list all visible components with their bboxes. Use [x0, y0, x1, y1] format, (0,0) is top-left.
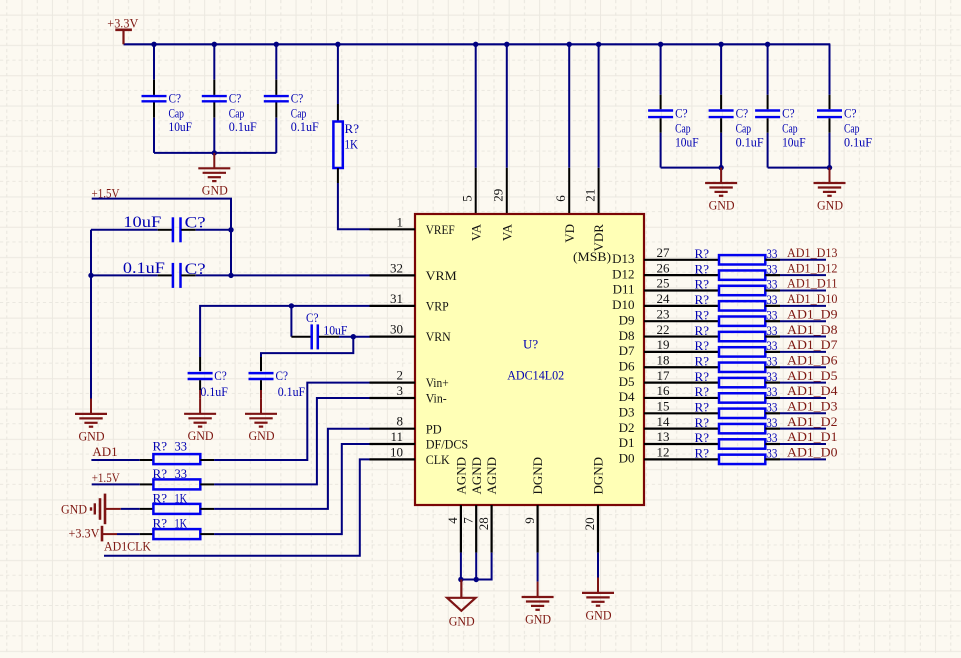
svg-text:C?: C?: [675, 106, 688, 121]
svg-text:C?: C?: [185, 215, 206, 232]
svg-text:2: 2: [397, 368, 404, 383]
svg-text:R?: R?: [695, 415, 710, 430]
svg-text:33: 33: [175, 439, 188, 454]
svg-text:24: 24: [657, 291, 671, 306]
svg-text:AD1_D11: AD1_D11: [787, 276, 838, 291]
svg-text:D3: D3: [619, 405, 635, 420]
svg-text:9: 9: [522, 517, 537, 524]
svg-text:31: 31: [390, 291, 403, 306]
svg-text:R?: R?: [153, 466, 168, 481]
svg-text:DGND: DGND: [530, 457, 545, 495]
svg-text:R?: R?: [695, 261, 710, 276]
svg-text:AD1_D1: AD1_D1: [787, 429, 838, 444]
svg-text:0.1uF: 0.1uF: [736, 135, 764, 150]
svg-text:0.1uF: 0.1uF: [123, 260, 165, 277]
svg-text:CLK: CLK: [426, 452, 451, 467]
svg-text:C?: C?: [229, 90, 242, 105]
svg-text:33: 33: [766, 246, 777, 261]
svg-text:VREF: VREF: [426, 222, 455, 237]
svg-text:1K: 1K: [345, 137, 359, 152]
svg-text:23: 23: [657, 306, 670, 321]
svg-text:32: 32: [390, 260, 403, 275]
svg-text:0.1uF: 0.1uF: [844, 135, 872, 150]
svg-text:GND: GND: [525, 611, 551, 626]
svg-text:C?: C?: [844, 106, 857, 121]
svg-text:GND: GND: [79, 428, 105, 443]
svg-text:C?: C?: [185, 261, 206, 278]
svg-text:10uF: 10uF: [782, 135, 806, 150]
svg-text:R?: R?: [695, 384, 710, 399]
svg-text:GND: GND: [817, 197, 843, 212]
svg-text:10uF: 10uF: [323, 322, 347, 337]
svg-text:+3.3V: +3.3V: [69, 525, 101, 540]
svg-text:4: 4: [445, 517, 460, 524]
svg-text:33: 33: [766, 430, 777, 445]
svg-text:AD1_D8: AD1_D8: [787, 322, 838, 337]
svg-text:D2: D2: [619, 420, 635, 435]
svg-text:AD1_D9: AD1_D9: [787, 306, 838, 321]
svg-text:AD1_D13: AD1_D13: [787, 245, 838, 260]
svg-text:VA: VA: [499, 223, 514, 241]
svg-text:33: 33: [766, 307, 777, 322]
svg-text:AGND: AGND: [469, 457, 484, 495]
svg-text:10uF: 10uF: [123, 214, 161, 231]
svg-text:R?: R?: [695, 277, 710, 292]
svg-text:AD1_D6: AD1_D6: [787, 352, 838, 367]
svg-text:29: 29: [491, 189, 506, 202]
svg-text:D11: D11: [613, 282, 635, 297]
svg-text:GND: GND: [249, 428, 275, 443]
svg-text:33: 33: [766, 261, 777, 276]
svg-text:D13: D13: [612, 251, 634, 266]
svg-text:C?: C?: [306, 310, 319, 325]
svg-text:1K: 1K: [175, 491, 188, 506]
svg-text:R?: R?: [153, 439, 168, 454]
svg-text:1K: 1K: [175, 516, 188, 531]
svg-text:+1.5V: +1.5V: [92, 470, 121, 485]
svg-text:VA: VA: [468, 223, 483, 241]
svg-text:C?: C?: [782, 106, 795, 121]
svg-text:33: 33: [766, 292, 777, 307]
svg-text:GND: GND: [449, 613, 475, 628]
svg-text:1: 1: [397, 214, 404, 229]
svg-text:12: 12: [657, 445, 670, 460]
svg-text:R?: R?: [695, 353, 710, 368]
svg-text:20: 20: [582, 517, 597, 530]
svg-text:17: 17: [657, 368, 671, 383]
svg-text:21: 21: [582, 189, 597, 202]
svg-text:VD: VD: [562, 224, 577, 243]
svg-text:R?: R?: [695, 400, 710, 415]
svg-text:13: 13: [657, 429, 670, 444]
svg-text:DF/DCS: DF/DCS: [426, 437, 469, 452]
svg-text:6: 6: [553, 195, 568, 202]
svg-text:14: 14: [657, 414, 671, 429]
svg-text:D0: D0: [619, 451, 635, 466]
svg-text:R?: R?: [153, 516, 168, 531]
svg-text:10uF: 10uF: [675, 135, 699, 150]
svg-text:18: 18: [657, 352, 670, 367]
svg-text:D1: D1: [619, 435, 635, 450]
svg-text:AD1_D7: AD1_D7: [787, 337, 838, 352]
svg-text:R?: R?: [695, 246, 710, 261]
svg-text:D8: D8: [619, 328, 635, 343]
svg-text:0.1uF: 0.1uF: [200, 384, 228, 399]
svg-text:VRP: VRP: [426, 299, 449, 314]
svg-text:D9: D9: [619, 312, 635, 327]
svg-text:VRN: VRN: [426, 329, 452, 344]
svg-text:AD1_D10: AD1_D10: [787, 291, 838, 306]
svg-text:C?: C?: [276, 368, 289, 383]
svg-text:R?: R?: [695, 292, 710, 307]
svg-text:D10: D10: [612, 297, 634, 312]
svg-text:16: 16: [657, 383, 671, 398]
svg-text:Cap: Cap: [675, 121, 691, 136]
svg-text:AD1CLK: AD1CLK: [104, 539, 152, 554]
svg-text:10: 10: [390, 444, 403, 459]
svg-text:U?: U?: [523, 337, 538, 352]
svg-text:AD1_D12: AD1_D12: [787, 260, 838, 275]
svg-text:AD1: AD1: [92, 444, 117, 459]
svg-text:7: 7: [460, 517, 475, 524]
svg-text:30: 30: [390, 322, 403, 337]
svg-text:33: 33: [766, 446, 777, 461]
svg-text:GND: GND: [61, 501, 87, 516]
svg-text:VDR: VDR: [591, 224, 606, 252]
svg-text:33: 33: [766, 415, 777, 430]
svg-text:D12: D12: [612, 266, 634, 281]
svg-text:33: 33: [766, 323, 777, 338]
svg-text:GND: GND: [586, 607, 612, 622]
svg-text:C?: C?: [214, 368, 227, 383]
svg-text:D5: D5: [619, 374, 635, 389]
svg-text:AD1_D4: AD1_D4: [787, 383, 838, 398]
svg-text:3: 3: [397, 383, 404, 398]
svg-text:33: 33: [175, 466, 188, 481]
svg-text:27: 27: [657, 245, 671, 260]
svg-text:0.1uF: 0.1uF: [229, 119, 257, 134]
svg-text:D7: D7: [619, 343, 635, 358]
svg-text:AD1_D0: AD1_D0: [787, 445, 838, 460]
svg-text:33: 33: [766, 277, 777, 292]
svg-text:R?: R?: [695, 369, 710, 384]
svg-text:GND: GND: [188, 428, 214, 443]
svg-text:D4: D4: [619, 389, 635, 404]
svg-text:Vin-: Vin-: [426, 391, 447, 406]
svg-text:26: 26: [657, 260, 671, 275]
svg-text:Cap: Cap: [844, 121, 860, 136]
svg-text:R?: R?: [695, 430, 710, 445]
svg-text:15: 15: [657, 399, 670, 414]
svg-text:Cap: Cap: [736, 121, 752, 136]
svg-text:DGND: DGND: [591, 457, 606, 495]
svg-text:R?: R?: [695, 323, 710, 338]
svg-text:Vin+: Vin+: [426, 375, 449, 390]
svg-text:R?: R?: [695, 446, 710, 461]
svg-text:GND: GND: [709, 197, 735, 212]
svg-text:D6: D6: [619, 358, 635, 373]
svg-text:33: 33: [766, 353, 777, 368]
svg-text:R?: R?: [695, 307, 710, 322]
svg-text:33: 33: [766, 338, 777, 353]
svg-text:AGND: AGND: [454, 457, 469, 495]
svg-text:33: 33: [766, 400, 777, 415]
svg-text:R?: R?: [345, 121, 360, 136]
svg-text:VRM: VRM: [426, 268, 457, 283]
svg-text:11: 11: [390, 429, 403, 444]
svg-text:33: 33: [766, 384, 777, 399]
svg-text:0.1uF: 0.1uF: [278, 384, 306, 399]
svg-text:10uF: 10uF: [169, 119, 193, 134]
svg-text:AGND: AGND: [484, 457, 499, 495]
svg-text:AD1_D5: AD1_D5: [787, 368, 838, 383]
svg-text:R?: R?: [153, 491, 168, 506]
svg-text:25: 25: [657, 276, 670, 291]
svg-text:0.1uF: 0.1uF: [291, 119, 319, 134]
svg-text:5: 5: [459, 195, 474, 202]
svg-text:22: 22: [657, 322, 670, 337]
svg-text:Cap: Cap: [782, 121, 798, 136]
svg-text:8: 8: [397, 414, 404, 429]
svg-text:AD1_D2: AD1_D2: [787, 414, 838, 429]
svg-text:33: 33: [766, 369, 777, 384]
svg-text:28: 28: [476, 517, 491, 530]
svg-text:C?: C?: [169, 90, 182, 105]
svg-text:GND: GND: [202, 183, 228, 198]
svg-text:19: 19: [657, 337, 670, 352]
svg-text:ADC14L02: ADC14L02: [507, 368, 564, 383]
svg-text:C?: C?: [736, 106, 749, 121]
svg-text:+3.3V: +3.3V: [107, 15, 139, 30]
svg-text:PD: PD: [426, 421, 442, 436]
svg-text:AD1_D3: AD1_D3: [787, 399, 838, 414]
svg-text:R?: R?: [695, 338, 710, 353]
svg-text:C?: C?: [291, 90, 304, 105]
